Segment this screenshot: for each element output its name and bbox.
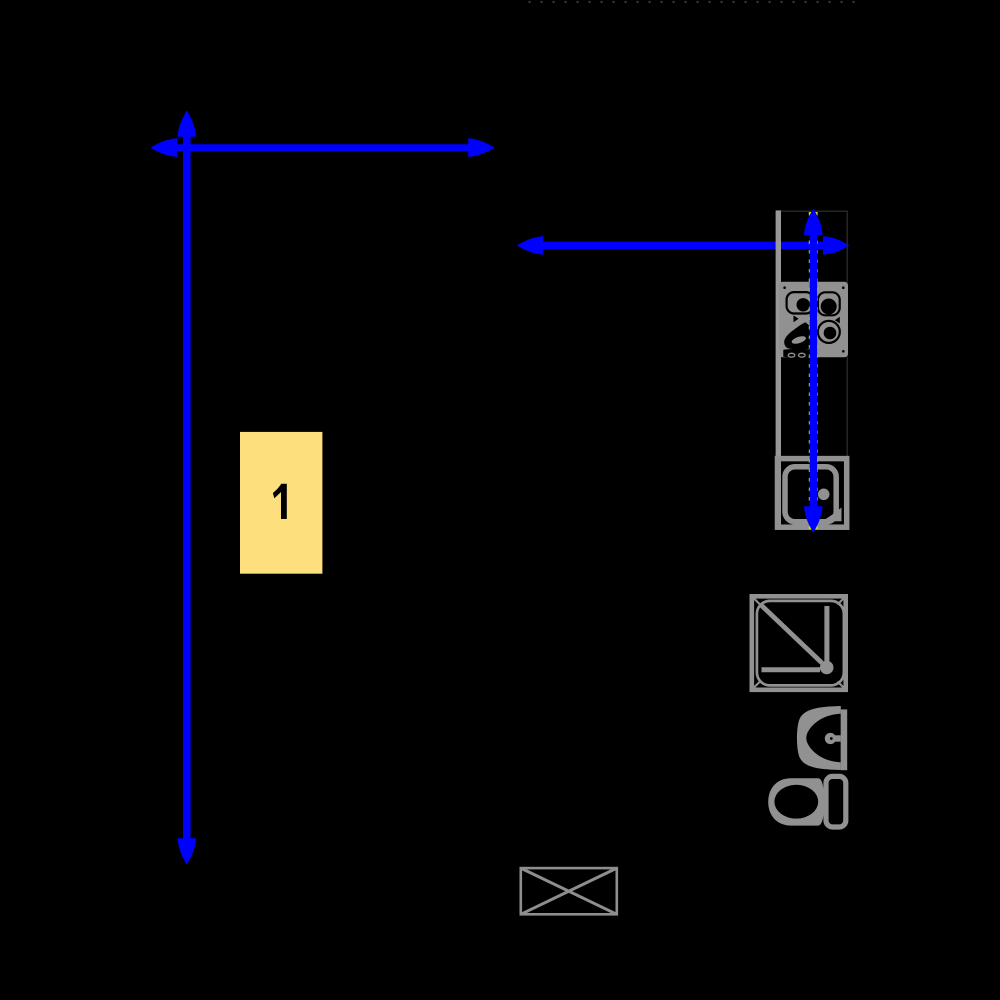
knob strip bbox=[783, 349, 813, 358]
dimension arrow V1 (left vertical) bbox=[178, 111, 197, 864]
kitchen sink bbox=[778, 459, 847, 528]
room 1 label bbox=[273, 484, 287, 519]
room 1 highlight rectangle bbox=[240, 432, 322, 574]
kitchen counter outline bbox=[778, 210, 848, 529]
stove bbox=[779, 282, 848, 358]
dimension arrow H2 (kitchen width) bbox=[518, 236, 849, 255]
window symbol bbox=[521, 868, 617, 914]
dimension arrow V2 (kitchen height, with yellow dashed underlay) bbox=[804, 209, 823, 532]
top dotted line bbox=[529, 1, 862, 3]
shower bbox=[752, 596, 846, 690]
dimension arrow H1 (top horizontal) bbox=[151, 138, 494, 157]
washbasin bbox=[797, 706, 847, 770]
toilet bbox=[768, 776, 846, 827]
kettle blob bbox=[784, 322, 813, 349]
